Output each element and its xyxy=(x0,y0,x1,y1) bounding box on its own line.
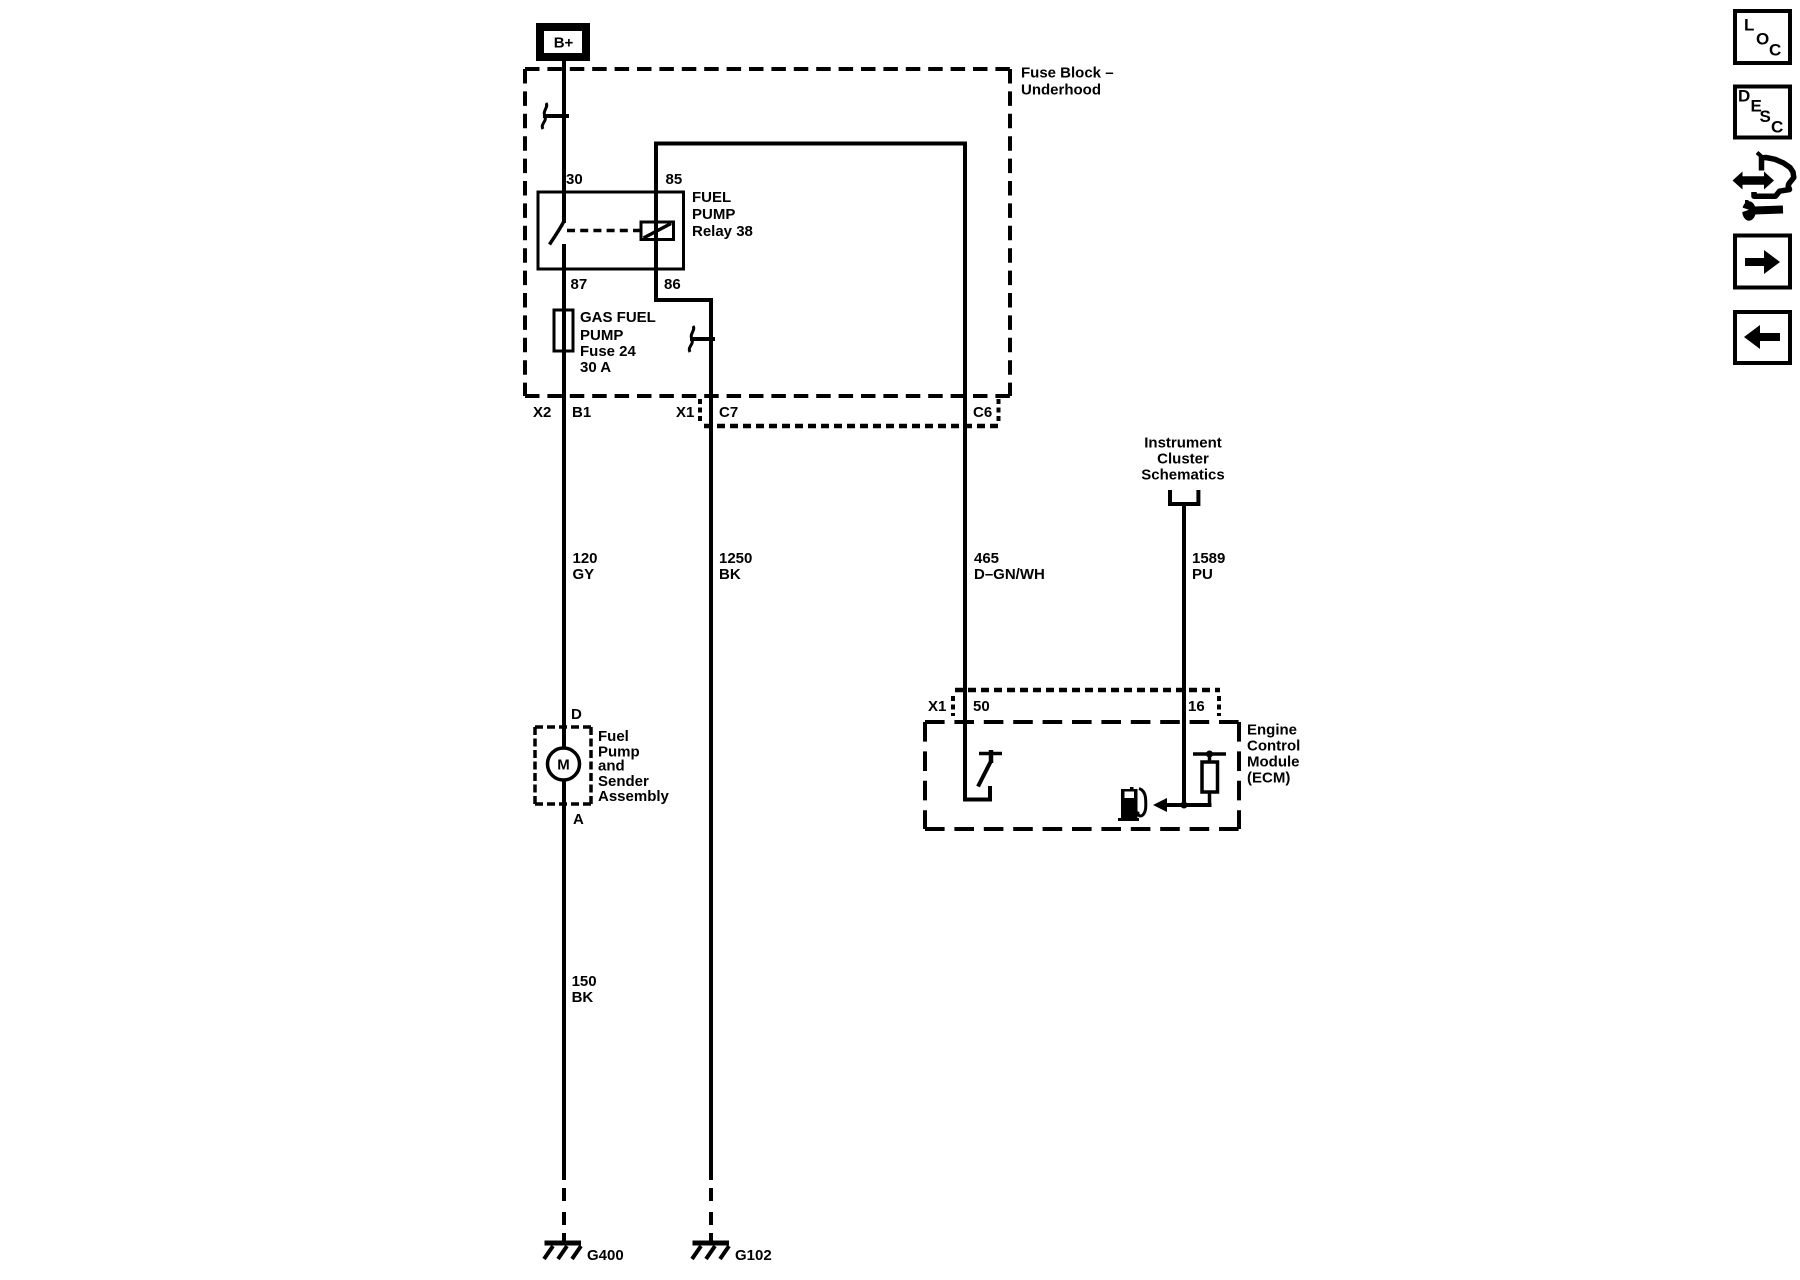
svg-text:FUEL: FUEL xyxy=(692,189,731,206)
svg-text:GAS FUEL: GAS FUEL xyxy=(580,309,656,326)
svg-text:C: C xyxy=(1771,118,1783,137)
svg-text:A: A xyxy=(573,811,584,828)
svg-text:30: 30 xyxy=(566,171,583,188)
svg-text:150: 150 xyxy=(572,973,597,990)
svg-text:1250: 1250 xyxy=(719,550,752,567)
svg-text:PUMP: PUMP xyxy=(580,327,623,344)
svg-text:Relay 38: Relay 38 xyxy=(692,223,753,240)
svg-text:L: L xyxy=(1744,16,1754,35)
svg-text:Cluster: Cluster xyxy=(1157,451,1209,468)
svg-text:D: D xyxy=(571,706,582,723)
svg-text:X1: X1 xyxy=(928,698,946,715)
svg-text:Instrument: Instrument xyxy=(1144,435,1222,452)
svg-text:PU: PU xyxy=(1192,566,1213,583)
svg-text:86: 86 xyxy=(664,276,681,293)
svg-text:C: C xyxy=(1769,41,1781,60)
svg-text:Underhood: Underhood xyxy=(1021,82,1101,99)
svg-text:50: 50 xyxy=(973,698,990,715)
svg-text:D: D xyxy=(1738,87,1750,106)
svg-text:BK: BK xyxy=(719,566,741,583)
svg-text:465: 465 xyxy=(974,550,999,567)
svg-text:Fuse 24: Fuse 24 xyxy=(580,343,637,360)
svg-text:1589: 1589 xyxy=(1192,550,1225,567)
svg-text:and: and xyxy=(598,758,625,775)
svg-text:87: 87 xyxy=(571,276,588,293)
svg-text:BK: BK xyxy=(572,989,594,1006)
svg-text:Module: Module xyxy=(1247,754,1300,771)
svg-text:(ECM): (ECM) xyxy=(1247,770,1290,787)
svg-text:O: O xyxy=(1756,30,1769,49)
svg-text:D–GN/WH: D–GN/WH xyxy=(974,566,1045,583)
svg-text:C7: C7 xyxy=(719,404,738,421)
svg-text:X1: X1 xyxy=(676,404,694,421)
svg-text:Fuel: Fuel xyxy=(598,728,629,745)
svg-text:M: M xyxy=(557,757,570,774)
svg-text:16: 16 xyxy=(1188,698,1205,715)
svg-text:G102: G102 xyxy=(735,1247,772,1264)
svg-text:GY: GY xyxy=(573,566,595,583)
svg-text:B+: B+ xyxy=(554,35,574,52)
svg-text:Engine: Engine xyxy=(1247,722,1297,739)
svg-text:Assembly: Assembly xyxy=(598,788,670,805)
svg-text:30 A: 30 A xyxy=(580,359,611,376)
svg-text:S: S xyxy=(1760,107,1771,126)
svg-text:C6: C6 xyxy=(973,404,992,421)
svg-text:PUMP: PUMP xyxy=(692,206,735,223)
svg-text:85: 85 xyxy=(666,171,683,188)
svg-text:Control: Control xyxy=(1247,738,1300,755)
svg-text:B1: B1 xyxy=(572,404,591,421)
svg-text:G400: G400 xyxy=(587,1247,624,1264)
svg-text:120: 120 xyxy=(573,550,598,567)
svg-text:X2: X2 xyxy=(533,404,551,421)
svg-text:Fuse Block –: Fuse Block – xyxy=(1021,65,1114,82)
svg-text:Schematics: Schematics xyxy=(1141,467,1224,484)
